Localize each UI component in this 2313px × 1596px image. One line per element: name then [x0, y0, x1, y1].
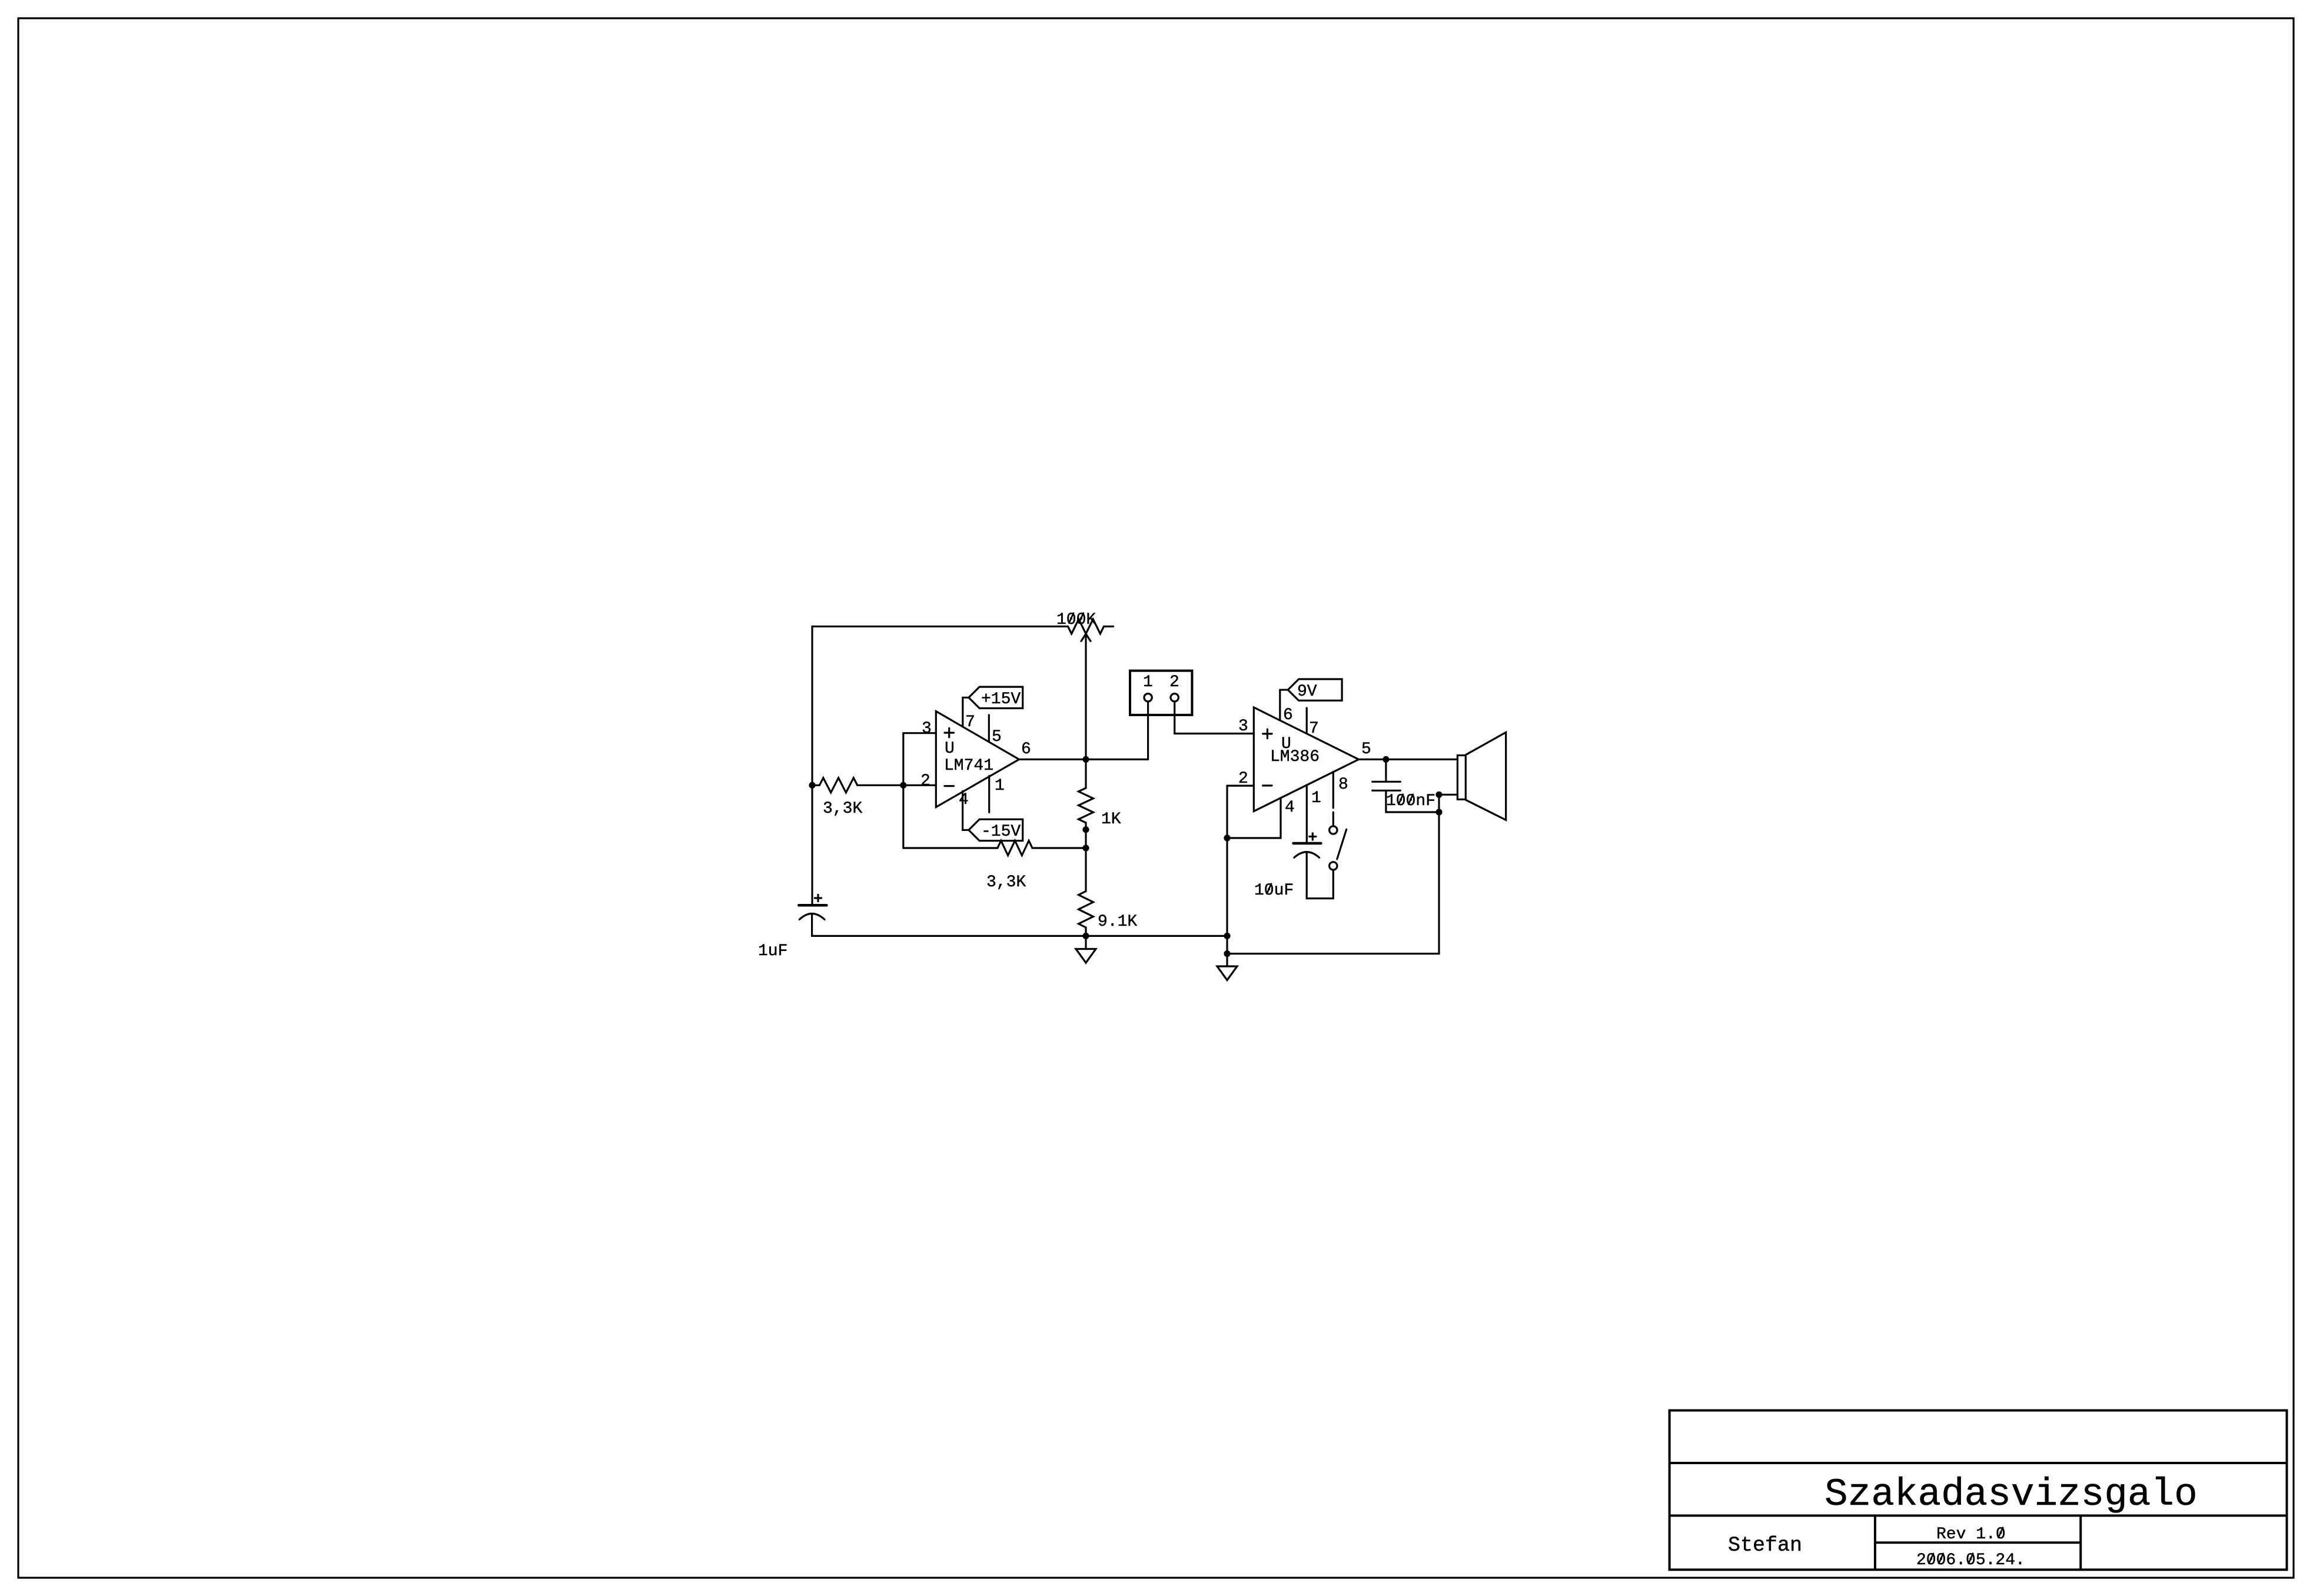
resistor R3 1K top lead [1085, 759, 1086, 788]
svg-text:+15V: +15V [981, 690, 1021, 709]
P1 wiper arrow [1081, 634, 1086, 641]
wire vertical input/feedback link [903, 733, 998, 848]
svg-text:100nF: 100nF [1386, 792, 1435, 810]
junction node U1 output [1082, 756, 1089, 763]
svg-text:9.1K: 9.1K [1098, 913, 1137, 931]
junction node U2 pin4 net [1224, 834, 1230, 841]
svg-text:100K: 100K [1056, 611, 1096, 629]
svg-text:2: 2 [1169, 673, 1179, 691]
svg-text:7: 7 [1309, 720, 1319, 738]
X1 pin 1 circle [1144, 694, 1152, 701]
potentiometer P1 100K body [1068, 619, 1104, 634]
svg-text:Stefan: Stefan [1728, 1534, 1802, 1557]
svg-text:LM386: LM386 [1270, 748, 1320, 766]
junction node feedback [1082, 844, 1089, 851]
wire X1 pin1 down to U1 output [1147, 701, 1149, 759]
junction node U1 pin2 [900, 782, 906, 789]
svg-text:1K: 1K [1101, 810, 1121, 829]
svg-text:3,3K: 3,3K [823, 800, 862, 818]
svg-text:10uF: 10uF [1254, 882, 1294, 900]
junction node ground bus [1082, 933, 1089, 939]
C1 bottom lead / bottom wire [812, 913, 1227, 936]
C1 bottom curved plate [799, 913, 825, 919]
R4 bottom lead [1085, 927, 1086, 936]
C3 bottom plate [1372, 790, 1401, 792]
wire U2 output to speaker [1359, 759, 1458, 760]
C2 bottom lead / wire to switch [1307, 852, 1333, 899]
junction node speaker return [1435, 792, 1442, 798]
resistor R1 3,3K body [819, 778, 857, 793]
U1 pin5 stub [988, 715, 990, 742]
svg-text:5: 5 [1361, 740, 1371, 759]
resistor R4 9.1K body [1079, 891, 1094, 927]
C2 plus mark [1310, 836, 1316, 837]
svg-text:9V: 9V [1297, 683, 1317, 701]
U2 pin1 wire to 10uF [1306, 785, 1308, 843]
svg-text:1uF: 1uF [758, 942, 787, 960]
U2 minus input mark [1263, 784, 1272, 786]
speaker SP1 horn [1465, 732, 1506, 820]
svg-text:-15V: -15V [981, 823, 1021, 841]
wire pin2 loop down to ground [1226, 786, 1228, 953]
U1 plus input mark [945, 731, 953, 733]
capacitor C1 1uF top plate [799, 904, 826, 907]
wire U2 pin2 [1227, 784, 1254, 786]
supply flag 9V [1288, 679, 1342, 700]
U2 pin6 wire to 9V [1280, 690, 1288, 720]
wire X1 pin2 to U2 pin3 [1175, 701, 1254, 734]
junction node below R3 [1082, 826, 1089, 833]
resistor R2 3,3K body [998, 841, 1032, 856]
wire right return loop [1227, 794, 1439, 953]
switch S1 top contact [1330, 826, 1337, 834]
svg-text:U: U [945, 740, 955, 758]
svg-text:6: 6 [1283, 706, 1293, 724]
junction node bottom bus [1224, 933, 1230, 939]
U1 pin7 wire to +15V [963, 697, 969, 726]
svg-text:1: 1 [1311, 789, 1321, 807]
U1 minus input mark [945, 785, 953, 787]
C1 plus mark [815, 897, 821, 899]
wire R1 to U1 pin2 [858, 784, 936, 786]
capacitor C3 100nF top lead [1385, 759, 1387, 782]
wire wiper to output node [1085, 634, 1086, 759]
ground GND1 symbol [1076, 949, 1096, 963]
wire U1 output [1019, 759, 1148, 760]
wire R1 left lead [812, 784, 819, 786]
svg-text:3: 3 [922, 720, 932, 738]
svg-text:LM741: LM741 [944, 757, 993, 775]
ground GND2 stub [1226, 954, 1228, 967]
svg-text:8: 8 [1338, 776, 1348, 794]
wire top net (1uF+/3,3K left to 100K left lead) [812, 627, 1068, 906]
switch S1 lever [1337, 829, 1347, 859]
100K right open lead [1104, 626, 1114, 627]
speaker SP1 body rect [1457, 756, 1465, 800]
svg-text:1: 1 [1143, 673, 1153, 691]
X1 pin 2 circle [1171, 694, 1178, 701]
svg-text:7: 7 [965, 713, 975, 731]
junction node lower bus [1224, 950, 1230, 957]
junction node C3 top [1383, 756, 1389, 763]
U2 plus input mark [1263, 733, 1272, 734]
svg-text:Szakadasvizsgalo: Szakadasvizsgalo [1825, 1472, 2198, 1517]
resistor R3 1K body [1079, 788, 1094, 823]
capacitor C2 10uF top plate [1294, 842, 1321, 845]
C3 top plate [1372, 781, 1401, 783]
ground GND1 stub [1085, 936, 1086, 949]
svg-text:4: 4 [1285, 799, 1295, 817]
wire speaker return [1439, 794, 1457, 796]
op-amp U1 LM741 triangle [936, 711, 1019, 807]
wire node to U2 pin4 [1227, 798, 1281, 838]
junction node input/R1 [809, 782, 815, 789]
connector X1 box [1130, 671, 1192, 715]
R3 bottom lead [1085, 823, 1086, 848]
svg-text:Rev 1.0: Rev 1.0 [1936, 1525, 2006, 1544]
supply flag +15V [969, 687, 1023, 708]
ground GND2 symbol [1217, 966, 1237, 980]
wire node to 9.1K [1085, 848, 1086, 891]
junction node C3 bottom [1435, 809, 1442, 815]
C2 bottom curved plate [1294, 852, 1320, 858]
svg-text:6: 6 [1021, 740, 1031, 759]
svg-text:2: 2 [920, 772, 930, 790]
wire R2 to node [1032, 847, 1086, 849]
U1 pin4 wire to -15V [963, 791, 969, 830]
U2 pin7 stub [1306, 708, 1308, 733]
supply flag -15V [969, 819, 1023, 840]
U1 pin1 stub [988, 776, 990, 812]
switch S1 bottom contact [1330, 862, 1337, 870]
op-amp U2 LM386 triangle [1254, 707, 1358, 812]
svg-text:5: 5 [992, 728, 1002, 746]
svg-text:3,3K: 3,3K [986, 873, 1026, 892]
C3 bottom lead [1386, 790, 1439, 812]
wire U1 pin3 [903, 732, 936, 734]
title block frame [1670, 1411, 2287, 1570]
svg-text:1: 1 [995, 777, 1005, 795]
svg-text:4: 4 [959, 791, 969, 809]
svg-text:3: 3 [1238, 717, 1248, 736]
U2 pin8 wire to switch [1332, 772, 1334, 808]
